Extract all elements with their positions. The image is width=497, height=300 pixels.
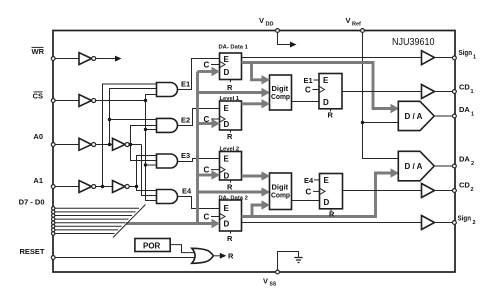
RESET pin [51,256,55,260]
svg-text:D / A: D / A [405,112,423,121]
VRef pin node [361,29,365,33]
wire WR to inverter [55,58,79,60]
buffer Sign2 [422,216,435,230]
bus arrow into register 2 D [198,119,221,128]
AND gate E2 [157,118,178,132]
inverter A0 first [79,138,96,150]
bus register 1 output [242,63,392,109]
svg-text:R: R [227,234,233,243]
svg-text:DA: DA [459,155,470,164]
svg-text:DA- Data 1: DA- Data 1 [219,45,249,51]
VRef label [346,16,362,28]
wire CD1 to pin [435,91,453,93]
wire CD2 to pin [435,190,453,192]
wire D/A2 to pin [434,165,452,167]
svg-text:E1: E1 [304,76,313,85]
bus tee into digit comparator 2 [198,187,271,196]
node CS branch to E2 [144,128,157,131]
svg-text:RESET: RESET [19,247,44,256]
wire VSS to ground [278,252,299,271]
svg-text:D: D [324,198,330,207]
svg-text:D: D [224,68,230,77]
wire A0-true second riser [142,145,157,196]
svg-text:E4: E4 [304,176,314,185]
digit comparator 2 [270,173,292,210]
svg-text:E3: E3 [181,151,190,160]
label C latch 1 [305,86,319,95]
svg-text:NJU39610: NJU39610 [392,37,435,48]
svg-text:SS: SS [270,282,277,288]
wire CS riser [146,95,157,201]
svg-text:D / A: D / A [405,162,423,171]
svg-text:R: R [227,132,233,141]
svg-text:CS: CS [33,92,43,101]
wire Sign2 to pin [435,222,453,224]
svg-text:A1: A1 [33,176,43,185]
wire A1 inverted segment [96,186,113,188]
svg-text:D7 - D0: D7 - D0 [19,198,45,207]
svg-text:2: 2 [473,220,476,226]
svg-text:CD: CD [459,181,470,190]
bus arrow into register 1 D [198,67,221,76]
svg-text:Ref: Ref [352,22,361,28]
svg-text:E: E [224,155,230,164]
A1 pin [51,185,55,189]
register DA-Data 1 [219,45,249,92]
WR pin [51,57,55,61]
register Level 2 [220,147,242,192]
AND gate E3 [157,154,178,168]
inverter A1 first [79,181,96,193]
label Sign2 [458,214,476,227]
svg-text:C: C [204,61,210,70]
POR block [135,239,170,252]
VRef vertical net [363,32,399,158]
CS pin [51,99,55,103]
D7-D0 pins and bus lines [52,207,140,236]
wire A0 to inverter [55,144,79,146]
wire E3 to register 3 enable [178,159,220,162]
wire digit comparator 1 to latch 1 [292,101,320,103]
bus riser into digit comparator 2 [252,200,270,216]
svg-text:E: E [224,204,230,213]
svg-text:V: V [259,16,264,25]
ground [294,258,302,263]
svg-text:C: C [204,213,210,222]
wire E4 to register 4 enable [178,197,220,209]
svg-text:E: E [323,76,329,85]
D/A converter 2 [398,151,434,181]
data bus main riser [196,72,199,224]
label CD1 [459,83,474,96]
label C register 3 [204,166,220,175]
svg-text:R: R [228,252,234,261]
svg-text:1: 1 [471,89,474,95]
label C latch 2 [306,188,320,197]
node A0-inverted branch to E2 [108,118,157,121]
wire WR buffered with arrow [96,56,122,62]
svg-text:D: D [224,120,230,129]
wire A0 true segment [129,144,141,146]
wire sign 1 [242,57,422,59]
svg-text:E1: E1 [181,80,190,89]
node CS junction [144,99,147,102]
pin DA1 [453,114,457,118]
bus arrow into D/A 1 [391,104,400,113]
svg-text:POR: POR [143,241,161,250]
svg-text:Sign: Sign [458,214,472,223]
inverter A1 second [113,181,130,193]
VDD label [259,16,273,28]
node A1-inverted tap [101,185,104,188]
svg-text:DA: DA [459,105,470,114]
buffer Sign1 [422,51,435,65]
wire latch 2 to CD2 buffer [343,190,422,192]
svg-text:CD: CD [459,83,470,92]
svg-text:Comp: Comp [271,191,290,200]
svg-text:1: 1 [473,55,476,61]
inverter WR [79,53,96,65]
label C register 1 [204,61,220,70]
svg-text:Comp: Comp [271,92,290,101]
node A1-true tap [135,185,138,188]
OR gate reset [192,248,214,263]
wire A0-inverted riser [110,89,157,145]
WR input label [32,47,45,56]
svg-text:E: E [224,55,230,64]
wire A1-inverted riser [103,84,157,187]
bus register 4 output [242,173,392,217]
wire POR to OR gate [170,245,194,253]
svg-text:2: 2 [471,161,474,167]
bus register 3 output [242,171,271,180]
digit comparator 1 [270,75,292,110]
bus drop into digit comparator 1 [252,63,271,85]
svg-text:D: D [323,98,329,107]
buffer CD2 [422,184,435,198]
svg-text:R: R [227,83,233,92]
wire A0-true riser [131,126,157,161]
svg-text:V: V [346,16,351,25]
pin Sign1 [453,56,457,60]
wire digit comparator 2 to latch 2 [292,200,320,202]
wire latch 1 to CD1 buffer [342,91,422,93]
svg-text:E: E [324,176,330,185]
pin Sign2 [453,221,457,225]
wire CS to inverter [55,100,79,102]
svg-text:E4: E4 [182,187,192,196]
svg-text:R: R [329,210,335,219]
svg-text:Sign: Sign [459,48,473,57]
bus tee into digit comparator 1 [198,88,271,97]
svg-text:WR: WR [32,47,45,56]
wire D/A1 to pin [434,115,452,117]
VDD internal arrow [278,32,297,47]
VSS pin node [276,270,280,274]
D/A converter 1 [398,101,434,130]
svg-text:D: D [224,171,230,180]
wire A0 inverted segment [96,144,113,146]
node A0-inverted tap [108,143,111,146]
label DA1 [459,105,474,118]
svg-text:C: C [306,188,312,197]
wire A1-true riser [137,156,157,191]
svg-text:DD: DD [266,22,274,28]
register DA-Data 2 [219,195,248,243]
label E1 latch 1 [304,76,320,85]
svg-text:R: R [227,183,233,192]
wire R output with arrow [213,252,234,261]
svg-text:D: D [224,220,230,229]
register Level 1 [220,96,242,141]
buffer CD1 [422,85,435,99]
inverter CS [79,95,96,107]
latch 2 [320,174,343,219]
chip border [53,31,455,273]
AND gate E1 [157,83,178,97]
bus arrow into D/A 2 [391,168,400,177]
pin CD2 [453,189,457,193]
bus arrow into register 3 D [198,170,221,179]
label C register 2 [204,115,220,124]
pin DA2 [453,164,457,168]
node VRef to D/A1 [361,121,398,124]
AND gate E4 [157,190,178,204]
node CS branch to E3 [144,163,157,166]
VSS label [263,277,277,288]
wire A1 true segment [129,186,136,188]
wire RESET to OR gate [55,257,196,259]
label C register 4 [204,213,220,222]
svg-text:2: 2 [471,187,474,193]
label DA2 [459,155,474,168]
inverter A0 second [113,138,130,150]
svg-text:C: C [305,86,311,95]
pin CD1 [453,90,457,94]
wire CS inverted to riser [96,100,146,102]
VDD pin node [276,29,280,33]
node A0-true tap [129,143,132,146]
wire Sign1 to pin [435,57,453,59]
CS input label [33,92,43,101]
label E4 latch 2 [304,176,320,185]
data bus bottom horizontal [126,219,221,228]
svg-text:A0: A0 [33,132,43,141]
bus slash marker [113,205,146,238]
label CD2 [459,181,474,194]
svg-text:E: E [224,104,230,113]
svg-text:R: R [328,111,334,120]
wire E2 to register 2 enable [178,109,220,126]
svg-text:V: V [263,277,268,286]
label Sign1 [459,48,477,61]
svg-text:E2: E2 [181,115,190,124]
svg-text:C: C [204,166,210,175]
A0 pin [51,143,55,147]
latch 1 [319,74,342,120]
svg-text:1: 1 [471,112,474,118]
bus register 2 output [242,99,271,108]
wire sign 2 [242,222,422,224]
wire A1 to inverter [55,186,79,188]
wire E1 to register 1 enable [178,59,220,90]
